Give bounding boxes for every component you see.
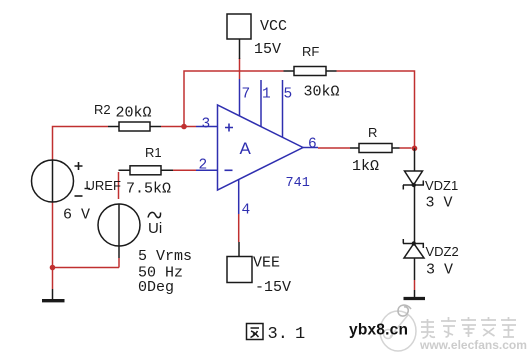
svg-text:3 V: 3 V [426, 195, 453, 212]
svg-text:UREF: UREF [86, 178, 121, 193]
svg-text:ybx8.cn: ybx8.cn [349, 322, 408, 339]
svg-text:6: 6 [308, 137, 317, 153]
svg-text:3: 3 [202, 117, 211, 133]
svg-text:5: 5 [284, 87, 293, 103]
svg-text:3 V: 3 V [426, 262, 453, 279]
svg-text:VCC: VCC [260, 18, 287, 35]
svg-text:7.5kΩ: 7.5kΩ [126, 181, 171, 198]
svg-text:2: 2 [199, 158, 208, 174]
svg-text:1: 1 [262, 87, 271, 103]
svg-text:-15V: -15V [255, 279, 291, 296]
svg-text:30kΩ: 30kΩ [304, 84, 340, 101]
svg-text:www.elecfans.com: www.elecfans.com [419, 338, 527, 352]
svg-text:R2: R2 [94, 102, 111, 117]
svg-text:7: 7 [242, 87, 251, 103]
svg-text:5 Vrms: 5 Vrms [138, 248, 192, 265]
svg-text:3.: 3. [268, 325, 288, 344]
svg-text:741: 741 [286, 176, 310, 191]
svg-text:RF: RF [302, 44, 319, 59]
svg-text:1: 1 [295, 325, 305, 344]
svg-text:6 V: 6 V [63, 207, 90, 224]
svg-text:A: A [240, 139, 252, 158]
svg-text:R: R [368, 125, 377, 140]
svg-text:VDZ2: VDZ2 [426, 244, 459, 259]
svg-text:15V: 15V [254, 41, 281, 58]
svg-text:VEE: VEE [253, 255, 280, 272]
svg-text:VDZ1: VDZ1 [425, 178, 458, 193]
svg-text:1kΩ: 1kΩ [352, 158, 379, 175]
svg-text:Ui: Ui [148, 220, 162, 237]
svg-text:R1: R1 [145, 145, 162, 160]
svg-text:20kΩ: 20kΩ [116, 105, 152, 122]
svg-text:4: 4 [242, 203, 251, 219]
svg-text:0Deg: 0Deg [138, 279, 174, 296]
